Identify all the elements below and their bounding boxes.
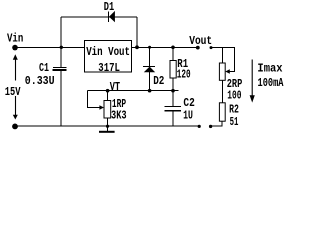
wire D2 bottom lead <box>149 72 151 90</box>
wire 2RP top lead <box>221 47 223 63</box>
node D2 top junction <box>148 46 151 49</box>
wire right riser from top branch <box>136 17 138 47</box>
resistor R1 <box>170 61 176 79</box>
capacitor C2 <box>165 107 182 111</box>
svg-text:Vin Vout: Vin Vout <box>86 45 130 59</box>
op-amp U1 regulator box 317L <box>85 41 132 73</box>
node bottom-left terminal dot <box>12 124 18 130</box>
node Vin terminal dot <box>12 45 18 51</box>
wire C2 bottom lead <box>172 110 174 126</box>
node C1 junction <box>60 46 63 49</box>
wire R1 top lead <box>172 47 174 60</box>
wire 1RP wiper feed <box>88 91 101 108</box>
node 1RP ground junction <box>106 125 109 128</box>
svg-text:120: 120 <box>177 67 191 81</box>
wire output rail (regulator to Vout dot) <box>132 46 200 48</box>
svg-text:317L: 317L <box>98 61 120 75</box>
node Vout terminal dot left <box>196 46 200 50</box>
svg-text:VT: VT <box>110 80 120 94</box>
wire 1RP top lead <box>107 91 109 101</box>
diode D2 <box>143 67 155 73</box>
potentiometer 2RP wiper arrow <box>225 69 230 74</box>
node bottom terminal dot right <box>209 125 212 128</box>
svg-text:51: 51 <box>230 115 239 129</box>
wire C1 bottom lead <box>60 70 62 126</box>
node R1 top junction <box>171 46 175 50</box>
capacitor C1 <box>53 68 67 71</box>
svg-text:Imax: Imax <box>257 61 282 75</box>
wire main input rail <box>15 46 85 48</box>
svg-text:D2: D2 <box>153 74 164 88</box>
svg-text:D1: D1 <box>104 0 114 14</box>
svg-text:100mA: 100mA <box>258 76 285 90</box>
node 1RP top junction <box>106 89 110 93</box>
15V measurement arrow down <box>13 96 18 120</box>
node Vout terminal dot right <box>210 46 213 49</box>
potentiometer 1RP wiper arrow <box>99 105 104 110</box>
wire output rail right of Vout gap <box>211 47 235 71</box>
wire bottom bus <box>15 125 199 127</box>
svg-text:1U: 1U <box>183 108 193 122</box>
ground stub <box>107 126 109 131</box>
wire top D1 branch <box>61 16 137 18</box>
wire between 2RP and R2 <box>221 80 223 103</box>
wire bottom right segment to R2 <box>211 121 222 126</box>
node R1/C2 junction <box>171 89 175 93</box>
Imax current arrow <box>250 60 255 103</box>
ground <box>99 131 115 133</box>
node D2 bottom junction <box>148 89 152 93</box>
svg-text:0.33U: 0.33U <box>25 74 55 88</box>
wire C1 top lead <box>60 47 62 67</box>
svg-text:Vout: Vout <box>189 34 212 48</box>
svg-text:Vin: Vin <box>7 32 23 46</box>
svg-text:15V: 15V <box>5 85 21 99</box>
wire 1RP bottom lead <box>107 118 109 126</box>
resistor R2 <box>219 103 225 121</box>
wire C2 top lead <box>172 91 174 107</box>
wire R1 bottom lead <box>172 78 174 91</box>
svg-text:100: 100 <box>227 88 241 102</box>
15V measurement arrow up <box>13 54 18 80</box>
svg-text:3K3: 3K3 <box>111 108 127 122</box>
svg-text:C1: C1 <box>39 61 49 75</box>
wire D2 top lead <box>149 47 151 66</box>
wire ADJ horizontal <box>88 90 179 92</box>
node top riser junction <box>135 45 139 49</box>
potentiometer 2RP body <box>219 63 225 80</box>
diode D1 <box>109 11 115 22</box>
potentiometer 1RP body <box>104 101 111 119</box>
node bottom terminal dot left <box>198 125 201 128</box>
wire left riser to top branch <box>60 17 62 47</box>
